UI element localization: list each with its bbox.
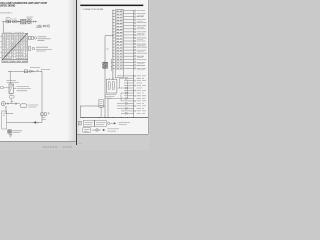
down arrow to battery (5, 107, 6, 109)
table footer row (2, 60, 28, 63)
note box 2 (95, 120, 107, 126)
wire: top feed wire (2, 21, 37, 23)
ECU connector block U1 (115, 10, 123, 78)
svg-text:CONNECTOR DETAIL: CONNECTOR DETAIL (83, 8, 105, 11)
fuse F1 (9, 20, 11, 22)
glow plug matrix table (2, 33, 28, 60)
starter motor M1 (1, 102, 5, 106)
diagonal line across table (2, 34, 27, 60)
wire: right-side vertical run (7, 71, 42, 122)
vertical links between rows (119, 78, 121, 88)
label: column captions above table (3, 31, 24, 33)
pin labels inside block (116, 9, 123, 69)
switch contacts (18, 21, 20, 23)
stub ladder to relay K2 (109, 78, 113, 79)
right bus wire (132, 10, 134, 117)
resistor R1 on feed wire (24, 70, 27, 73)
starter feed row (83, 128, 91, 133)
label: text above relay (7, 80, 20, 82)
fusible link FL1 (6, 20, 8, 23)
lower harness rows (108, 75, 146, 114)
sensor group A (28, 36, 30, 39)
label: E tag (106, 48, 108, 50)
pin wires to harness connectors with labels (123, 10, 147, 70)
wire: drop to glow relay (9, 71, 11, 84)
junction box J1 (8, 130, 12, 133)
left page sheet (0, 0, 76, 141)
label: resistor R2 text (28, 105, 38, 107)
battery box outline (2, 111, 7, 129)
label row: resistor legend (36, 25, 50, 27)
glow control relay K1 (9, 84, 13, 94)
ground (9, 135, 12, 137)
sensor group B (28, 47, 31, 50)
label: junction box text (12, 131, 22, 133)
label: row captions left of table (0, 37, 1, 58)
label: battery row text (119, 122, 130, 124)
battery symbol row (108, 122, 110, 124)
wire: drop to glow plug grid (2, 22, 4, 34)
book spine (76, 0, 77, 145)
label box under relay (10, 94, 12, 96)
label: starter row text (108, 129, 120, 131)
wire: motor row (5, 103, 20, 105)
ground bus wire (80, 117, 148, 119)
connector tab at left margin (78, 121, 81, 125)
connector stub left of relay (1, 87, 4, 89)
svg-text:(DIESEL ENGINE): (DIESEL ENGINE) (0, 5, 15, 8)
label: component names above top wire (5, 18, 17, 20)
note box 1 (83, 120, 94, 126)
label: sensor group B text (36, 47, 52, 51)
indicator lamp L1 (circle-X) (27, 19, 32, 24)
wire: bus A lower (104, 68, 106, 117)
branch from bus to power wire (105, 36, 113, 63)
label: vertical connector designation (110, 59, 112, 71)
connector pair C1 (12, 20, 15, 23)
arrow on return wire (33, 121, 36, 124)
label: feed wire text (30, 67, 50, 69)
left bus wire (112, 10, 114, 80)
glow relay box (21, 19, 26, 24)
diode module D1 (hatched box) (103, 62, 108, 68)
resistor R2 (pill) (20, 104, 27, 108)
label: sensor group A text (38, 37, 51, 41)
label: footer page number right (63, 146, 72, 148)
module box M2 (left) (99, 100, 103, 108)
label: relay K1 text (13, 87, 16, 89)
wire row: lower long (107, 98, 109, 117)
wire: relay feed horizontal (8, 70, 42, 72)
svg-text:(DIESEL): (DIESEL) (0, 12, 12, 14)
bus junctions (83, 116, 134, 119)
relay K2 with twin coils (106, 79, 117, 93)
right page sheet (77, 0, 149, 134)
label: relay K2 designation (105, 95, 117, 99)
connector end (33, 21, 35, 23)
ticks on return wire (38, 122, 39, 124)
label: sensor S2 text (41, 117, 46, 119)
sensor S2 on vertical run (40, 113, 43, 116)
label: footer page number left (43, 146, 59, 148)
header rule (black bar) (80, 5, 143, 7)
plus tick (12, 101, 14, 103)
label: footer mark under right page (77, 143, 82, 145)
wire: left margin riser (80, 106, 105, 118)
pin stubs and junctions (112, 10, 115, 69)
